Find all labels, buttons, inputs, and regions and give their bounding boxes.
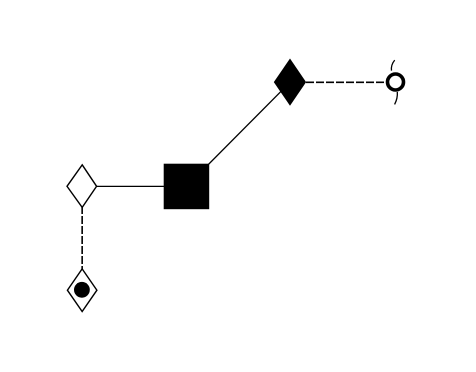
wire: dashed vertical bond (open diamond to dotted diamond) bbox=[81, 186, 83, 290]
wire: solid horizontal bond (open diamond to square) bbox=[82, 185, 186, 187]
wire: reducing-end upper tick arc bbox=[391, 60, 394, 71]
node: reducing-end circle bbox=[388, 74, 404, 90]
node: dotted diamond residue (center dot) bbox=[74, 282, 90, 298]
wire: reducing-end lower tick arc bbox=[395, 92, 398, 104]
wire: dashed horizontal bond (filled diamond to reducing-end circle) bbox=[306, 81, 384, 83]
node: open diamond residue bbox=[67, 165, 97, 208]
wire: solid diagonal bond (square to filled diamond) bbox=[187, 82, 291, 186]
node: dotted diamond residue (outline) bbox=[67, 269, 97, 312]
node: filled diamond residue bbox=[274, 59, 306, 106]
node: filled square residue bbox=[164, 164, 210, 210]
